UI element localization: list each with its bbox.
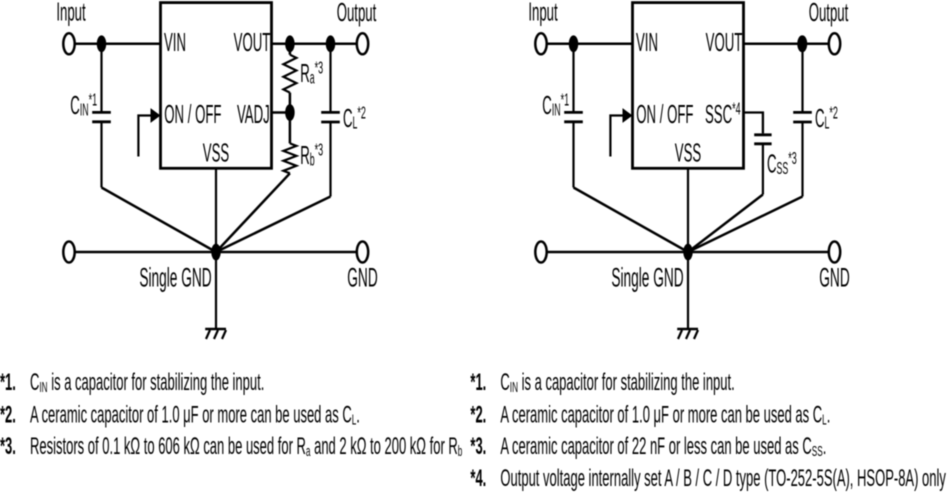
svg-text:*2.: *2. bbox=[0, 403, 16, 429]
svg-text:Single GND: Single GND bbox=[611, 264, 683, 293]
svg-text:Single GND: Single GND bbox=[139, 264, 211, 293]
svg-text:VADJ: VADJ bbox=[237, 100, 270, 129]
svg-text:GND: GND bbox=[347, 264, 377, 293]
svg-text:VSS: VSS bbox=[675, 139, 701, 168]
svg-text:VOUT: VOUT bbox=[234, 28, 271, 57]
svg-text:Output: Output bbox=[809, 0, 849, 27]
svg-text:ON / OFF: ON / OFF bbox=[636, 100, 693, 129]
svg-text:VIN: VIN bbox=[164, 28, 186, 57]
svg-text:VSS: VSS bbox=[203, 139, 229, 168]
svg-text:Input: Input bbox=[56, 0, 86, 27]
svg-text:A ceramic capacitor of 1.0 μF: A ceramic capacitor of 1.0 μF or more ca… bbox=[500, 403, 830, 429]
svg-text:*4.: *4. bbox=[470, 466, 486, 492]
svg-text:*1.: *1. bbox=[0, 370, 16, 396]
svg-text:ON / OFF: ON / OFF bbox=[164, 100, 221, 129]
svg-text:Input: Input bbox=[528, 0, 558, 27]
svg-text:GND: GND bbox=[819, 264, 849, 293]
svg-text:*2.: *2. bbox=[470, 403, 486, 429]
svg-text:*3.: *3. bbox=[0, 434, 16, 460]
svg-text:Output: Output bbox=[337, 0, 377, 27]
svg-text:*1.: *1. bbox=[470, 370, 486, 396]
svg-text:Output voltage internally set: Output voltage internally set A / B / C … bbox=[500, 466, 946, 492]
svg-text:A ceramic capacitor of 22 nF o: A ceramic capacitor of 22 nF or less can… bbox=[500, 434, 826, 460]
svg-text:VOUT: VOUT bbox=[706, 28, 743, 57]
svg-text:CIN​ is a capacitor for stabil: CIN​ is a capacitor for stabilizing the … bbox=[500, 370, 734, 396]
svg-text:*3.: *3. bbox=[470, 434, 486, 460]
svg-text:CIN​ is a capacitor for stabil: CIN​ is a capacitor for stabilizing the … bbox=[30, 370, 264, 396]
svg-text:Resistors of 0.1 kΩ to 606 kΩ: Resistors of 0.1 kΩ to 606 kΩ can be use… bbox=[30, 434, 463, 460]
svg-text:A ceramic capacitor of 1.0 μF: A ceramic capacitor of 1.0 μF or more ca… bbox=[30, 403, 360, 429]
svg-text:VIN: VIN bbox=[636, 28, 658, 57]
